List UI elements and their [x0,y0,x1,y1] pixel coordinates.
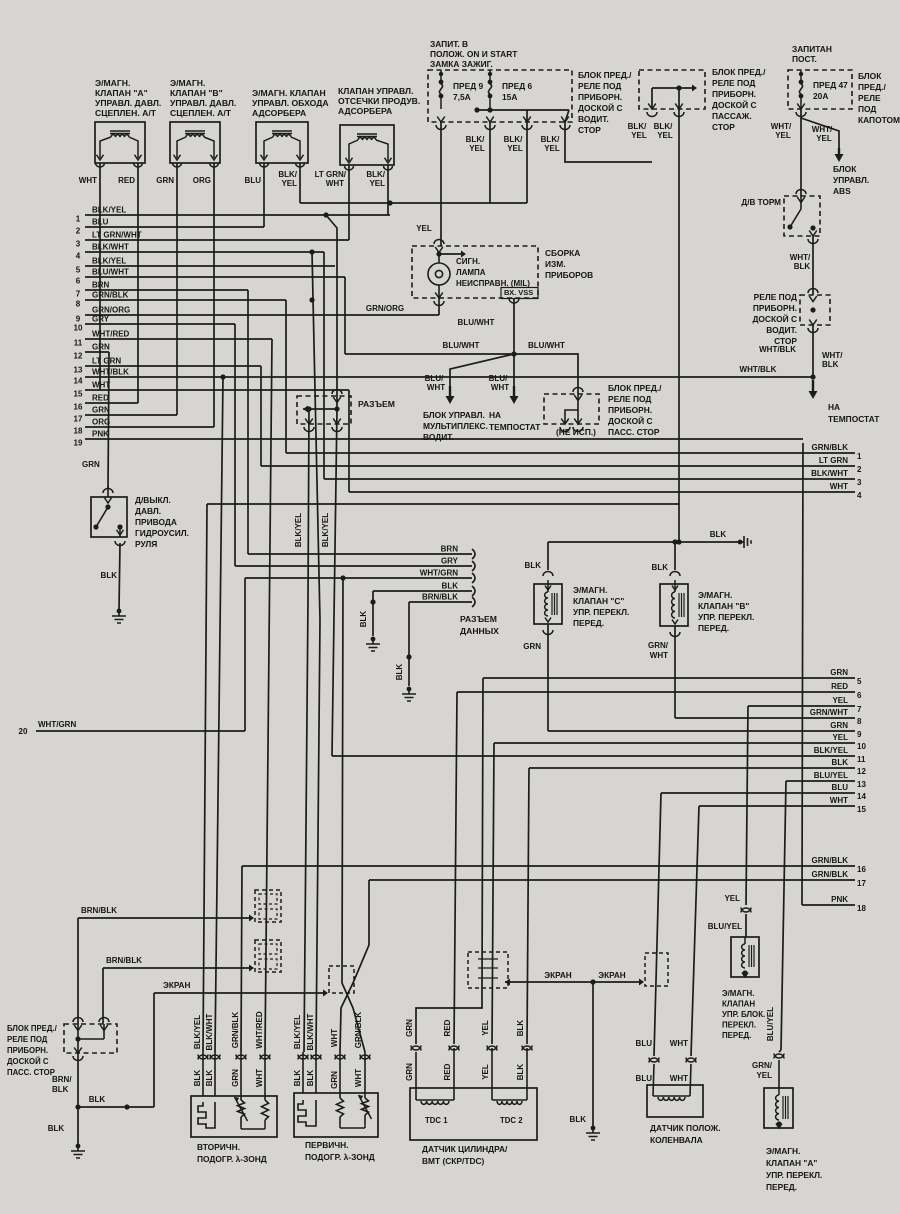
wire - BRN/BLK ground stub at data link [408,602,410,686]
wire - fuse box internal drop x527 [526,110,528,122]
wire - right pin 5 GRN horizontal [483,677,855,679]
wire - BLK from passenger block to ground [77,1053,79,1146]
svg-text:11: 11 [74,339,83,348]
svg-text:ПРЕД 6: ПРЕД 6 [502,81,532,91]
svg-text:BRN/BLK: BRN/BLK [422,593,458,602]
switch blade and contacts [105,504,110,509]
connector arrows at passenger fuse box bottom [648,104,656,110]
svg-text:БЛОК ПРЕД./: БЛОК ПРЕД./ [712,67,766,77]
svg-text:BLK/: BLK/ [654,122,673,131]
svg-text:СИГН.: СИГН. [456,257,480,266]
inline connector upper - inner detail [259,894,277,904]
connector arcs on lockup solenoid feed [741,908,751,913]
svg-text:BLK: BLK [52,1085,69,1094]
svg-text:СТОР: СТОР [712,122,735,132]
service check connector - dashed box [297,396,351,424]
inline connector upper - dashed box [255,890,281,922]
wire - BLK/WHT riser (dot on line 4) to primary O2 heater [309,249,314,254]
svg-text:ВОДИТ.: ВОДИТ. [423,432,454,442]
svg-text:ПЕРВИЧН.: ПЕРВИЧН. [305,1140,349,1150]
svg-text:УПР. ПЕРЕКЛ.: УПР. ПЕРЕКЛ. [573,607,629,617]
svg-text:БЛОК ПРЕД./: БЛОК ПРЕД./ [608,383,662,393]
svg-text:RED: RED [92,394,109,403]
connector arrows at relay box [808,289,818,294]
svg-text:Э/МАГН.: Э/МАГН. [170,78,205,88]
solenoid A - coil [778,1088,780,1095]
wire - WHT/YEL branch to ABS control unit [801,118,839,148]
shift solenoid C - box [534,584,562,624]
wire - BLU/WHT diagonal to multiplex unit [450,354,514,386]
svg-text:10: 10 [857,742,866,751]
wire - left pin 12 GRN horizontal [85,351,109,353]
svg-text:УПРАВЛ. ДАВЛ.: УПРАВЛ. ДАВЛ. [95,98,161,108]
wire - ЭКРАН shield line with ground branch [505,981,641,983]
svg-text:ПЕРЕКЛ.: ПЕРЕКЛ. [722,1021,756,1030]
wire - bypass solenoid BLK/YEL lead down [299,163,301,203]
svg-text:BRN/BLK: BRN/BLK [106,956,142,965]
svg-text:WHT/: WHT/ [771,122,792,131]
svg-text:ПОДОГР. λ-ЗОНД: ПОДОГР. λ-ЗОНД [197,1154,267,1164]
wire - right pin 17 GRN/BLK horizontal [369,879,855,881]
node - junction dot fuse 6 output [487,107,492,112]
solenoid valve A clutch pressure control - coil [110,130,130,132]
svg-text:ABS: ABS [833,186,851,196]
svg-text:GRN: GRN [830,721,848,730]
passenger block internal wiring [103,1024,105,1039]
wire - left pin 20 WHT/GRN horizontal [36,730,245,732]
wire - BRN/BLK lower connector pigtail [103,967,249,969]
wire - WHT riser line 15 to right pin 4 [348,390,350,492]
node - dot MIL feed split [436,251,441,256]
wire - BRN/BLK drop to passenger block left [77,918,79,1024]
wire - BLK/YEL bus horizontal y203 [300,202,527,204]
svg-text:АДСОРБЕРА: АДСОРБЕРА [338,106,392,116]
terminal crescent (BLK) [472,586,475,596]
svg-text:15: 15 [857,805,866,814]
shift solenoid B - box [660,584,688,626]
wire - passenger fuse box internal left leg [651,88,653,109]
svg-text:УПР. ПЕРЕКЛ.: УПР. ПЕРЕКЛ. [766,1170,822,1180]
svg-text:WHT: WHT [326,179,344,188]
wire - left pin 7 BRN horizontal [85,289,248,291]
svg-text:YEL: YEL [832,696,848,705]
svg-text:ЭКРАН: ЭКРАН [598,971,625,980]
node - junction dot passenger BLK/YEL drop [676,539,681,544]
svg-text:GRN/ORG: GRN/ORG [92,306,130,315]
instrument cluster - dashed box [412,246,538,298]
wire - GRN riser pin 5 down through shield connector to TDC1 [482,678,483,988]
node - junction dot BLK ground bus [75,1104,80,1109]
wire - GRN/BLK riser line 8 to right pin 1 [285,300,287,453]
terminal crescent (BRN) [472,549,475,559]
svg-text:BLK: BLK [89,1095,106,1104]
node - dot on riser A [306,406,311,411]
crank sensor shield connector - dashed box [645,953,668,986]
connector arrows at driver fuse box bottom [437,117,445,123]
svg-text:ДОСКОЙ С: ДОСКОЙ С [712,99,757,110]
svg-text:ПРЕД./: ПРЕД./ [858,82,886,92]
TDC shield connector rungs [478,958,498,960]
svg-text:WHT/RED: WHT/RED [92,330,130,339]
wire - BLU/WHT branch right to unused connector [514,354,578,394]
svg-text:BLU: BLU [832,783,849,792]
wire - YEL riser pin 7 to lockup solenoid [746,706,748,905]
svg-text:БЛОК УПРАВЛ.: БЛОК УПРАВЛ. [423,410,485,420]
svg-text:BLK/YEL: BLK/YEL [193,1015,202,1049]
svg-text:WHT: WHT [92,381,110,390]
connector arcs crank sensor wires [649,1058,659,1063]
wire - GRN solenoid C to right pin 9 [547,624,549,731]
solenoid A - box [764,1088,793,1128]
wire - right pin 7 YEL horizontal [748,705,855,707]
wire - BRN riser line 7 to data connector [247,290,249,554]
svg-text:WHT/: WHT/ [822,351,843,360]
svg-text:ДАТЧИК ЦИЛИНДРА/: ДАТЧИК ЦИЛИНДРА/ [422,1144,508,1154]
svg-text:GRN: GRN [231,1069,240,1087]
svg-text:ПРИБОРН.: ПРИБОРН. [608,405,652,415]
crankshaft position sensor - box [647,1085,703,1117]
solenoid valve canister purge cutoff - box [340,125,394,165]
svg-text:BLK: BLK [652,563,669,572]
svg-text:BLK/: BLK/ [466,135,485,144]
connector arc below switch [115,541,125,546]
svg-text:ПАССАЖ.: ПАССАЖ. [712,111,752,121]
svg-text:BLK: BLK [359,611,368,628]
svg-text:6: 6 [857,691,862,700]
svg-text:BLU/: BLU/ [425,374,444,383]
connector arcs above solenoid C [543,572,553,577]
svg-text:ОТСЕЧКИ ПРОДУВ.: ОТСЕЧКИ ПРОДУВ. [338,96,420,106]
passenger side fuse/relay block - dashed box [64,1024,117,1053]
svg-text:9: 9 [76,315,81,324]
wire - BLK/YEL drop x527 [526,122,528,203]
arrow - to cruise control (НА ТЕМПОСТАТ) [812,380,814,393]
secondary O2 heater element [202,1052,204,1096]
svg-text:ДОСКОЙ С: ДОСКОЙ С [608,415,653,426]
wire - left pin 14 WHT/BLK horizontal [85,376,814,378]
wire - WHT riser (dot on WHT/GRN line) to primary O2 sensor [340,575,345,580]
terminal crescent (GRY) [472,561,475,571]
arrow - to cruise control (middle) [513,386,515,398]
svg-text:2: 2 [76,227,81,236]
svg-text:YEL: YEL [369,179,385,188]
svg-text:WHT/GRN: WHT/GRN [38,720,76,729]
node - junction dot passenger box bus [676,85,681,90]
svg-text:ЗАМКА ЗАЖИГ.: ЗАМКА ЗАЖИГ. [430,59,493,69]
svg-text:ПРЕД 47: ПРЕД 47 [813,80,848,90]
svg-text:РЕЛЕ ПОД: РЕЛЕ ПОД [7,1035,48,1044]
svg-text:GRN: GRN [82,460,100,469]
svg-text:ДАВЛ.: ДАВЛ. [135,506,161,516]
wire - left pin 18 ORG horizontal [85,426,214,428]
svg-text:12: 12 [857,767,866,776]
svg-text:КЛАПАН "В": КЛАПАН "В" [170,88,223,98]
node - junction dot shield ground [590,979,595,984]
wire - solenoid A feed lower [779,1050,781,1052]
svg-text:ПОСТ.: ПОСТ. [792,54,817,64]
svg-text:BLK: BLK [293,1070,302,1087]
connector arcs above solenoid B [670,572,680,577]
svg-text:BRN/: BRN/ [52,1075,72,1084]
svg-text:GRY: GRY [92,315,110,324]
svg-text:8: 8 [76,300,81,309]
wire - data link WHT/GRN horizontal [245,577,472,579]
TDC2 pickup coil [491,1088,493,1100]
svg-text:WHT/: WHT/ [790,253,811,262]
wire - BLK bus y542 [548,541,744,543]
wire - left pin 8 GRN/BLK horizontal [85,299,286,301]
svg-text:РЕЛЕ: РЕЛЕ [858,93,881,103]
svg-text:ПРИБОРН.: ПРИБОРН. [753,303,797,313]
wire - right pin 9 GRN horizontal [548,730,855,732]
svg-text:Э/МАГН.: Э/МАГН. [573,585,607,595]
svg-text:9: 9 [857,730,862,739]
svg-text:BLK/WHT: BLK/WHT [92,243,129,252]
svg-text:ВОДИТ.: ВОДИТ. [766,325,797,335]
wire - right pin 13 BLU/YEL horizontal [786,780,855,782]
svg-text:WHT: WHT [354,1069,363,1087]
svg-text:7: 7 [76,290,81,299]
fuse F9 7.5A symbol [439,72,443,76]
wire - BLK ground stub at data link [372,591,374,636]
wire - data link BRN/BLK horizontal [409,601,472,603]
arrow - shield line into connector [323,990,328,997]
ground - second data link ground [407,687,412,692]
switch output arrow [117,524,122,529]
connector arcs TDC wires [411,1046,421,1051]
ground - right pointing chassis ground [738,540,743,545]
svg-text:ВТОРИЧН.: ВТОРИЧН. [197,1142,240,1152]
secondary O2 variable resistor [240,1052,242,1100]
wire - right pin 1 GRN/BLK horizontal [286,452,855,454]
node - dot on riser B [334,406,339,411]
svg-text:YEL: YEL [507,144,523,153]
svg-text:BLK/: BLK/ [278,170,297,179]
svg-text:КЛАПАН УПРАВЛ.: КЛАПАН УПРАВЛ. [338,86,413,96]
svg-text:17: 17 [857,879,866,888]
svg-text:RED: RED [443,1019,452,1036]
svg-text:ПРИБОРОВ: ПРИБОРОВ [545,270,593,280]
wire - BLU riser pin 14 to crank sensor [654,793,661,1056]
primary O2 sensor - box [294,1093,378,1137]
svg-text:СБОРКА: СБОРКА [545,248,580,258]
svg-text:КАПОТОМ: КАПОТОМ [858,115,900,125]
connector arrow at passenger block bottom [74,1048,82,1054]
svg-text:НА: НА [828,402,840,412]
svg-text:BLK/WHT: BLK/WHT [306,1013,315,1050]
node - dot on BLK ground bus [124,1104,129,1109]
wire - WHT/BLK relay to cruise junction [812,325,814,377]
svg-text:Э/МАГН.: Э/МАГН. [95,78,130,88]
wire - right pin 6 RED horizontal [457,691,855,693]
svg-text:ПОЛОЖ. ON И START: ПОЛОЖ. ON И START [430,49,518,59]
wire - solenoid B feed drop [674,542,676,570]
svg-text:WHT: WHT [830,796,848,805]
svg-text:BLK/YEL: BLK/YEL [321,513,330,547]
secondary O2 internal bottom bar [264,1120,266,1129]
svg-text:СЦЕПЛЕН. А/Т: СЦЕПЛЕН. А/Т [170,108,232,118]
svg-text:14: 14 [74,377,83,386]
svg-text:БЛОК: БЛОК [833,164,857,174]
wire - GRY riser line 10 to data connector [234,324,236,566]
terminal crescent (BRN/BLK) [472,597,475,607]
wire - GRN riser line 12 to power steering switch [108,352,109,489]
svg-text:BLU/WHT: BLU/WHT [458,318,495,327]
ground - data link BLK [371,637,376,642]
wire - data link BLK horizontal [373,590,472,592]
svg-text:YEL: YEL [469,144,485,153]
relay under driver dash - dashed box [800,295,830,325]
svg-text:BLK: BLK [193,1070,202,1087]
svg-text:BLK: BLK [570,1115,587,1124]
svg-text:BLK/: BLK/ [541,135,560,144]
solenoid valve B clutch pressure control - coil [185,130,205,132]
svg-text:18: 18 [74,427,83,436]
svg-text:RED: RED [831,682,848,691]
brake switch blade and contacts [800,196,802,209]
svg-text:BLK/YEL: BLK/YEL [293,1015,302,1049]
arrow - to ABS control unit [838,148,840,156]
inline connector lower - inner detail [259,944,277,954]
wire - WHT/GRN riser from pin 20 up to data connector line [244,578,246,731]
underhood fuse/relay box - dashed box [788,70,852,109]
svg-text:WHT: WHT [670,1039,688,1048]
wire - right pin 14 BLU horizontal [661,792,855,794]
unused connector - dashed box [544,394,599,424]
node - dot on BRN/BLK stub [406,654,411,659]
svg-text:ПРЕД 9: ПРЕД 9 [453,81,483,91]
wire - BLK ground bus horizontal [78,1106,154,1108]
wire - left pin 2 BLU horizontal [85,226,264,228]
wire - BLU/WHT riser from line 6 [344,277,346,354]
wire - left pin 15 WHT horizontal [85,389,349,391]
svg-text:BLK: BLK [101,571,118,580]
svg-text:ORG: ORG [193,176,211,185]
connector arrow into cluster top [434,240,444,245]
svg-text:BLU/WHT: BLU/WHT [528,341,565,350]
wire - ЭКРАН shield line to primary O2 connector [154,992,324,994]
svg-text:3: 3 [857,478,862,487]
svg-text:YEL: YEL [416,224,432,233]
wire - data link GRY horizontal [235,565,472,567]
wire - lockup solenoid feed lower [745,914,747,937]
svg-text:YEL: YEL [775,131,791,140]
svg-text:19: 19 [74,439,83,448]
svg-text:УПР. ПЕРЕКЛ.: УПР. ПЕРЕКЛ. [698,612,754,622]
shift solenoid C - coil [547,580,549,592]
svg-text:КЛАПАН: КЛАПАН [722,1000,755,1009]
TDC shield connector - dashed box [468,952,508,988]
connector arrow into brake switch [796,190,806,195]
wire - right pin 8 GRN/WHT horizontal [675,717,855,719]
wire - left pin 11 WHT/RED horizontal [85,338,272,340]
primary O2 heater element [302,1052,304,1093]
svg-text:BLK/YEL: BLK/YEL [92,206,126,215]
svg-text:BLK: BLK [516,1064,525,1081]
wire - left pin 9 GRN/ORG horizontal [85,314,439,316]
svg-text:BLK/YEL: BLK/YEL [294,513,303,547]
svg-text:WHT: WHT [79,176,97,185]
wire - BLK shield drain to ground [592,982,594,1128]
solenoid valve canister purge cutoff - coil [357,133,377,135]
svg-text:18: 18 [857,904,866,913]
svg-text:БЛОК: БЛОК [858,71,882,81]
svg-text:GRN/BLK: GRN/BLK [354,1012,363,1049]
wire - right pin 12 BLK horizontal [529,767,855,769]
svg-text:BLK: BLK [306,1070,315,1087]
svg-text:ВМТ (СКР/TDC): ВМТ (СКР/TDC) [422,1156,485,1166]
wire - passenger fuse box internal right leg [678,88,680,109]
svg-text:WHT/: WHT/ [812,125,833,134]
wire - solenoid B ORG lead down to line 18 [213,163,215,427]
wire - purge solenoid LT GRN/WHT lead down to line 3 [348,165,350,240]
svg-text:BLU/YEL: BLU/YEL [708,922,742,931]
wire - YEL from fuse 9 down to MIL [440,122,442,246]
arrow - to driver multiplex control unit [449,386,451,398]
svg-text:15А: 15А [502,92,517,102]
ground - shield drain [591,1126,596,1131]
svg-text:ПЕРЕД.: ПЕРЕД. [722,1031,751,1040]
wire - fuse box internal bus y110 [477,109,569,111]
svg-text:ИЗМ.: ИЗМ. [545,259,566,269]
wire - GRN/BLK riser from pin 17 line to primary O2 sensor [340,880,369,1052]
wires TDC below arcs [415,1052,417,1088]
connector arrows at service connector bottom [305,419,313,425]
svg-text:1: 1 [76,215,81,224]
svg-text:20: 20 [19,727,28,736]
svg-text:GRN: GRN [330,1071,339,1089]
wire - right pin 15 WHT horizontal [699,805,855,807]
svg-text:GRN: GRN [92,343,110,352]
wire - left pin 10 GRY horizontal [85,323,235,325]
wire - BLU/WHT horizontal from line 6 riser [345,353,514,355]
fuse F47 20A symbol [799,72,803,76]
svg-text:Д/ВЫКЛ.: Д/ВЫКЛ. [135,495,171,505]
TDC cylinder sensor - box [410,1088,537,1140]
primary O2 internal bottom bar [339,1124,341,1128]
svg-text:BLU/WHT: BLU/WHT [92,268,129,277]
svg-text:БЛОК ПРЕД./: БЛОК ПРЕД./ [7,1024,58,1033]
wire - GRN/BLK riser from pin 16 line to secondary O2 sensor [241,866,242,1052]
svg-text:ДОСКОЙ С: ДОСКОЙ С [578,102,623,113]
wire - left pin 16 RED horizontal [85,402,138,404]
solenoid valve A clutch pressure control - box [95,122,145,163]
connector arcs secondary O2 wires [198,1055,208,1060]
svg-text:BLK/WHT: BLK/WHT [811,469,848,478]
wire - left pin 19 PNK horizontal [85,438,803,440]
svg-text:КЛАПАН "С": КЛАПАН "С" [573,596,624,606]
solenoid valve canister bypass control - box [256,122,308,163]
svg-text:GRN/ORG: GRN/ORG [366,304,404,313]
svg-text:BLU: BLU [245,176,262,185]
svg-text:3: 3 [76,240,81,249]
node - junction dot BLU/WHT split [511,351,516,356]
svg-text:ПАСС. СТОР: ПАСС. СТОР [7,1068,55,1077]
fuse/relay box under passenger dash - dashed box [639,70,705,109]
wire - data link BRN horizontal [248,553,472,555]
svg-text:BLK: BLK [395,664,404,681]
svg-text:4: 4 [76,252,81,261]
wire - internal jumper with left arrow [303,408,337,410]
solenoid valve B clutch pressure control - box [170,122,220,163]
svg-text:ТЕМПОСТАТ: ТЕМПОСТАТ [489,422,541,432]
svg-text:5: 5 [76,266,81,275]
node - junction dot WHT/BLK to cruise control [810,374,815,379]
node - junction dot solenoid B feed [672,539,677,544]
svg-text:17: 17 [74,415,83,424]
svg-text:ПЕРЕД.: ПЕРЕД. [698,623,729,633]
svg-text:16: 16 [74,403,83,412]
